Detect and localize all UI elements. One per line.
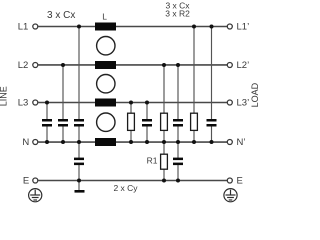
wire vertical x79 L1-cap [78, 27, 80, 120]
resistor R1 (N-E) [161, 154, 168, 169]
svg-text:3 x Cx: 3 x Cx [47, 10, 75, 21]
node E/x79 [77, 179, 81, 183]
wire vertical x79 E-chassis bar [78, 181, 80, 191]
wire L2 horizontal [38, 64, 95, 66]
capacitor Cy 2 (N-E) [173, 158, 183, 166]
node N/x131 [129, 140, 133, 144]
ground symbol left [29, 189, 42, 202]
capacitor Cx left 1 (L3-N) [42, 119, 52, 127]
inductor L core circle 3 [97, 113, 115, 131]
node L2/x63 [61, 63, 65, 67]
wire vertical x164 R1-E [163, 169, 165, 180]
node L3/x131 [129, 101, 133, 105]
node N/x47 [45, 140, 49, 144]
wire vertical x131 L3-R2a [130, 103, 132, 114]
svg-text:LINE: LINE [0, 86, 9, 106]
node L1/x79 [77, 25, 81, 29]
node N/x164 [162, 140, 166, 144]
terminal L1' [227, 24, 232, 29]
node L1/x211.5 [210, 25, 214, 29]
node L3/x47 [45, 101, 49, 105]
wire vertical x164 N-R1 [163, 142, 165, 154]
wire vertical x194 L1-R2c [193, 27, 195, 114]
terminal L1 [33, 24, 38, 29]
svg-text:L1’: L1’ [237, 21, 250, 32]
svg-text:E: E [23, 175, 29, 186]
node N/x178 [176, 140, 180, 144]
wire L1 horizontal [38, 26, 95, 28]
svg-text:L2: L2 [18, 60, 29, 71]
wire vertical x164 R2b-N [163, 130, 165, 142]
inductor L winding L2 [95, 61, 116, 69]
node L1/x194 [192, 25, 196, 29]
terminal N' [227, 140, 232, 145]
wire vertical x147 L3-Cxa [146, 103, 148, 120]
ground symbol right [224, 189, 237, 202]
wire vertical x178 Cxb-N [177, 126, 179, 142]
node N/x79 [77, 140, 81, 144]
terminal E left [33, 178, 38, 183]
inductor L winding L3 [95, 99, 116, 107]
node E/x178 [176, 179, 180, 183]
inductor L winding N [95, 138, 116, 146]
capacitor Cx right b (L2-N) [173, 119, 183, 127]
svg-text:L2’: L2’ [237, 60, 250, 71]
terminal L3 [33, 100, 38, 105]
svg-text:L1: L1 [18, 21, 29, 32]
resistor R2 a (L3-N) [128, 113, 135, 130]
svg-text:N’: N’ [237, 137, 246, 148]
wire vertical x164 L2-R2b [163, 65, 165, 113]
wire vertical x131 R2a-N [130, 130, 132, 142]
capacitor Cx left 3 (L1-N) [74, 119, 84, 127]
wire vertical x147 Cxa-N [146, 126, 148, 142]
wire vertical x194 R2c-N [193, 130, 195, 142]
wire vertical x79 cap-N [78, 126, 80, 142]
wire vertical x178 N-Cy2 [177, 142, 179, 158]
wire vertical x211.5 Cxc-N [211, 126, 213, 142]
svg-text:L3’: L3’ [237, 97, 250, 108]
inductor L winding L1 [95, 23, 116, 31]
wire vertical x211.5 L1-Cxc [211, 27, 213, 120]
wire vertical x47 L3-cap [46, 103, 48, 120]
wire L3 horizontal [38, 102, 95, 104]
resistor R2 b (L2-N) [161, 113, 168, 130]
node L2/x164 [162, 63, 166, 67]
node E/x164 [162, 179, 166, 183]
chassis bar below E [75, 190, 85, 193]
node N/x211.5 [210, 140, 214, 144]
terminal E right [227, 178, 232, 183]
svg-text:E: E [237, 175, 243, 186]
inductor L core circle 2 [97, 75, 115, 93]
wire vertical x63 L2-cap [62, 65, 64, 120]
capacitor Cx right c (L1-N) [207, 119, 217, 127]
terminal L2 [33, 63, 38, 68]
wire vertical x178 L2-Cxb [177, 65, 179, 120]
wire E horizontal [38, 180, 227, 182]
svg-text:L: L [102, 12, 107, 22]
node N/x194 [192, 140, 196, 144]
resistor R2 c (L1-N) [191, 113, 198, 130]
wire vertical x178 Cy2-E [177, 165, 179, 181]
terminal L2' [227, 63, 232, 68]
node L3/x147 [145, 101, 149, 105]
node L2/x178 [176, 63, 180, 67]
svg-text:L3: L3 [18, 97, 29, 108]
svg-text:2 x Cy: 2 x Cy [113, 183, 138, 193]
terminal N [33, 140, 38, 145]
svg-text:3 x R2: 3 x R2 [165, 8, 190, 18]
svg-text:LOAD: LOAD [250, 82, 260, 107]
wire vertical x79 N-Cy1 [78, 142, 80, 158]
wire vertical x47 cap-N [46, 126, 48, 142]
inductor L core circle 1 [97, 37, 115, 55]
svg-text:N: N [22, 137, 29, 148]
wire vertical x63 cap-N [62, 126, 64, 142]
node N/x147 [145, 140, 149, 144]
capacitor Cx right a (L3-N) [142, 119, 152, 127]
wire N horizontal [38, 141, 95, 143]
wire vertical x79 Cy1-E [78, 165, 80, 181]
svg-text:R1: R1 [147, 156, 158, 166]
node N/x63 [61, 140, 65, 144]
capacitor Cy 1 (N-E) [74, 158, 84, 166]
terminal L3' [227, 100, 232, 105]
capacitor Cx left 2 (L2-N) [58, 119, 68, 127]
